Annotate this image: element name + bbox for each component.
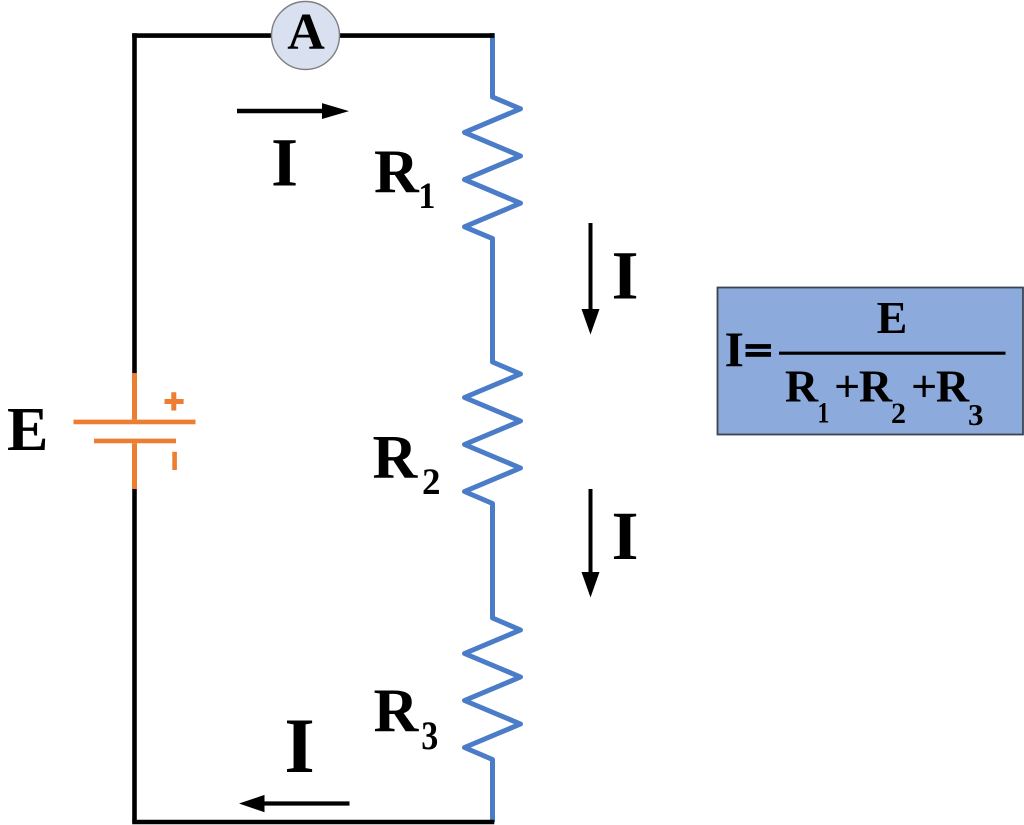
svg-text:I: I [725,321,744,377]
wire between R1 and R2 [490,239,495,362]
svg-text:R: R [785,361,819,412]
battery positive plate (long) [74,420,196,425]
wire between R2 and R3 [490,504,495,619]
current arrow I bottom (leftward) [239,795,350,812]
current arrow I right lower (downward) [582,489,600,598]
label R1 [374,139,435,217]
wire left upper [132,33,137,373]
svg-text:E: E [7,396,48,464]
current arrow I top (rightward) [237,103,349,119]
svg-text:3: 3 [968,397,984,432]
svg-text:R: R [374,139,420,207]
wire right bottom (node between R3 and bottom wire) [490,760,495,823]
svg-text:R: R [859,361,893,412]
svg-text:R: R [936,361,970,412]
plus sign [165,392,184,410]
resistor R3 [465,618,521,760]
svg-text:+: + [834,361,860,412]
minus sign [172,452,177,470]
battery negative lead [132,443,137,489]
battery negative plate (short) [94,439,176,444]
battery positive lead [132,373,137,419]
resistor R2 [465,362,521,504]
current arrow I right upper (downward) [582,223,600,335]
svg-text:2: 2 [422,462,441,503]
svg-text:1: 1 [418,175,435,217]
svg-text:A: A [287,4,325,61]
wire right top (node between ammeter and R1) [490,33,495,97]
svg-text:R: R [374,678,420,746]
svg-text:2: 2 [891,397,906,430]
svg-text:I: I [612,238,639,314]
label R3 [374,678,439,759]
svg-text:1: 1 [817,396,829,429]
resistor R1 [465,97,521,239]
svg-text:+: + [911,361,937,412]
formula box I = E / (R1 + R2 + R3) [718,288,1024,435]
wire left lower [132,489,137,822]
svg-text:I: I [612,498,639,574]
svg-text:I: I [284,702,314,789]
wire top [132,33,494,38]
battery E (voltage source cell, orange) [74,373,196,489]
svg-text:R: R [373,424,419,492]
wire bottom [132,820,494,825]
formula fraction bar [779,352,1006,355]
svg-text:3: 3 [421,715,438,759]
label R2 [373,424,441,503]
svg-text:I: I [271,125,298,201]
ammeter A [272,2,340,70]
svg-text:E: E [877,292,908,343]
formula equals sign [746,344,772,349]
